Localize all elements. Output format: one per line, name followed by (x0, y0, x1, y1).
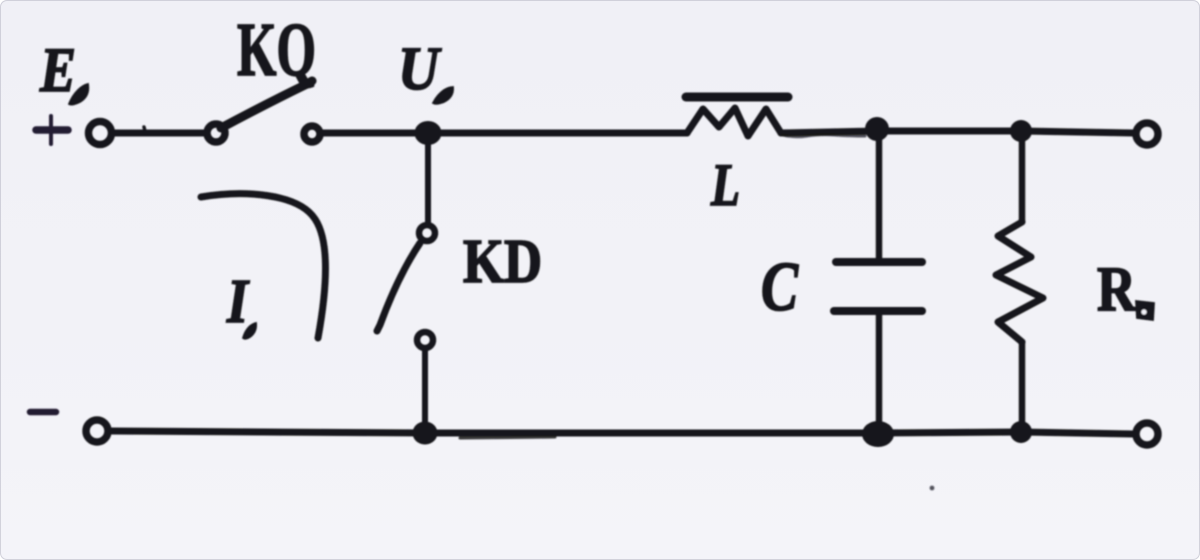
svg-text:L: L (710, 152, 740, 218)
svg-text:R: R (1097, 253, 1137, 324)
svg-text:U: U (398, 36, 442, 103)
svg-text:KQ: KQ (237, 8, 316, 92)
svg-text:I: I (226, 268, 249, 336)
svg-text:E: E (39, 35, 76, 105)
svg-text:C: C (761, 249, 799, 326)
svg-text:KD: KD (463, 228, 542, 296)
